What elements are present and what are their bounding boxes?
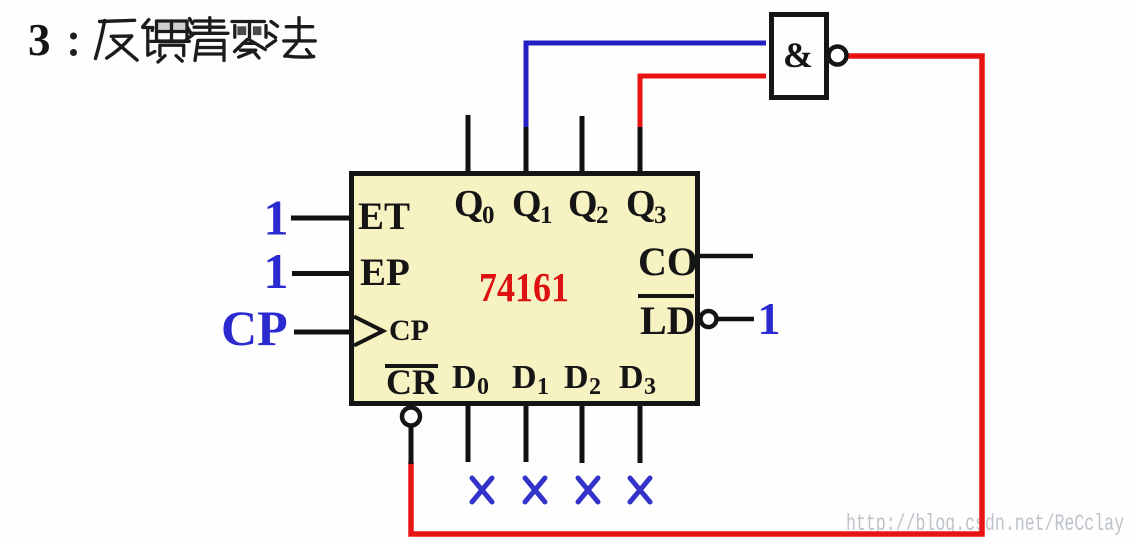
- wire Q0 stub: [466, 115, 471, 172]
- LD input bubble: [701, 311, 717, 327]
- svg-text:1: 1: [264, 243, 289, 299]
- wire CR stub: [409, 426, 414, 464]
- title char 零: [232, 22, 266, 59]
- svg-text:1: 1: [758, 293, 781, 344]
- D2 dont-care mark: [578, 478, 598, 502]
- svg-text:&: &: [783, 35, 813, 75]
- svg-text:D: D: [564, 359, 589, 396]
- svg-text:0: 0: [482, 202, 495, 229]
- svg-text:2: 2: [589, 374, 601, 400]
- wire Q1 stub: [524, 127, 529, 172]
- pin label D3: [619, 359, 656, 400]
- svg-text:1: 1: [540, 202, 553, 229]
- svg-text:0: 0: [477, 374, 489, 400]
- wire D0 stub: [466, 405, 471, 462]
- D1 dont-care mark: [525, 478, 545, 502]
- CR input bubble: [402, 408, 420, 426]
- svg-text:Q: Q: [512, 183, 542, 225]
- svg-text:74161: 74161: [479, 264, 569, 310]
- svg-text:D: D: [619, 359, 644, 396]
- pin label Q3: [626, 183, 667, 229]
- svg-text:LD: LD: [640, 298, 696, 343]
- clock triangle: [354, 317, 383, 346]
- wire CO output: [700, 254, 753, 259]
- pin label Q1: [512, 183, 553, 229]
- wire LD input: [717, 317, 754, 322]
- counter U1 74161 body: [352, 174, 698, 404]
- title "3：": [28, 15, 77, 65]
- wire ET input: [291, 216, 353, 221]
- svg-text:ET: ET: [358, 195, 410, 238]
- svg-text:1: 1: [264, 190, 289, 246]
- NAND gate U2 body: [772, 15, 827, 98]
- svg-text:3: 3: [654, 202, 667, 229]
- pin label Q2: [568, 183, 609, 229]
- wire EP input: [292, 271, 353, 276]
- svg-text:Q: Q: [626, 183, 656, 225]
- wire Q3 to NAND input (red): [640, 76, 766, 129]
- title char 清: [186, 18, 228, 61]
- wire D3 stub: [638, 405, 643, 463]
- svg-text:Q: Q: [568, 183, 598, 225]
- title char 法: [267, 18, 315, 58]
- svg-text:1: 1: [537, 374, 549, 400]
- svg-text:CP: CP: [389, 314, 429, 347]
- D3 dont-care mark: [630, 478, 650, 502]
- svg-text:D: D: [512, 359, 537, 396]
- svg-text:CO: CO: [638, 239, 698, 284]
- pin label D1: [512, 359, 549, 400]
- wire D1 stub: [524, 405, 529, 462]
- wire Q1 to NAND input (blue): [526, 43, 766, 129]
- wire Q3 stub: [638, 127, 643, 172]
- pin label CR with overline: [385, 362, 439, 402]
- NAND output bubble: [829, 47, 847, 65]
- svg-text:2: 2: [596, 202, 609, 229]
- title char 反: [96, 20, 138, 60]
- D0 dont-care mark: [472, 478, 492, 502]
- svg-text:3: 3: [28, 15, 51, 65]
- pin label LD with overline: [638, 296, 696, 343]
- pin label Q0: [454, 183, 495, 229]
- wire NAND output feedback loop (red): [411, 56, 982, 534]
- title char 馈: [143, 20, 190, 62]
- pin label D0: [452, 359, 489, 400]
- svg-text:EP: EP: [360, 251, 410, 294]
- svg-text:D: D: [452, 359, 477, 396]
- wire D2 stub: [580, 405, 585, 463]
- svg-text:CP: CP: [221, 300, 288, 356]
- svg-text:3: 3: [644, 374, 656, 400]
- pin label D2: [564, 359, 601, 400]
- wire CP input: [294, 330, 353, 335]
- svg-text:Q: Q: [454, 183, 484, 225]
- wire Q2 stub: [580, 116, 585, 172]
